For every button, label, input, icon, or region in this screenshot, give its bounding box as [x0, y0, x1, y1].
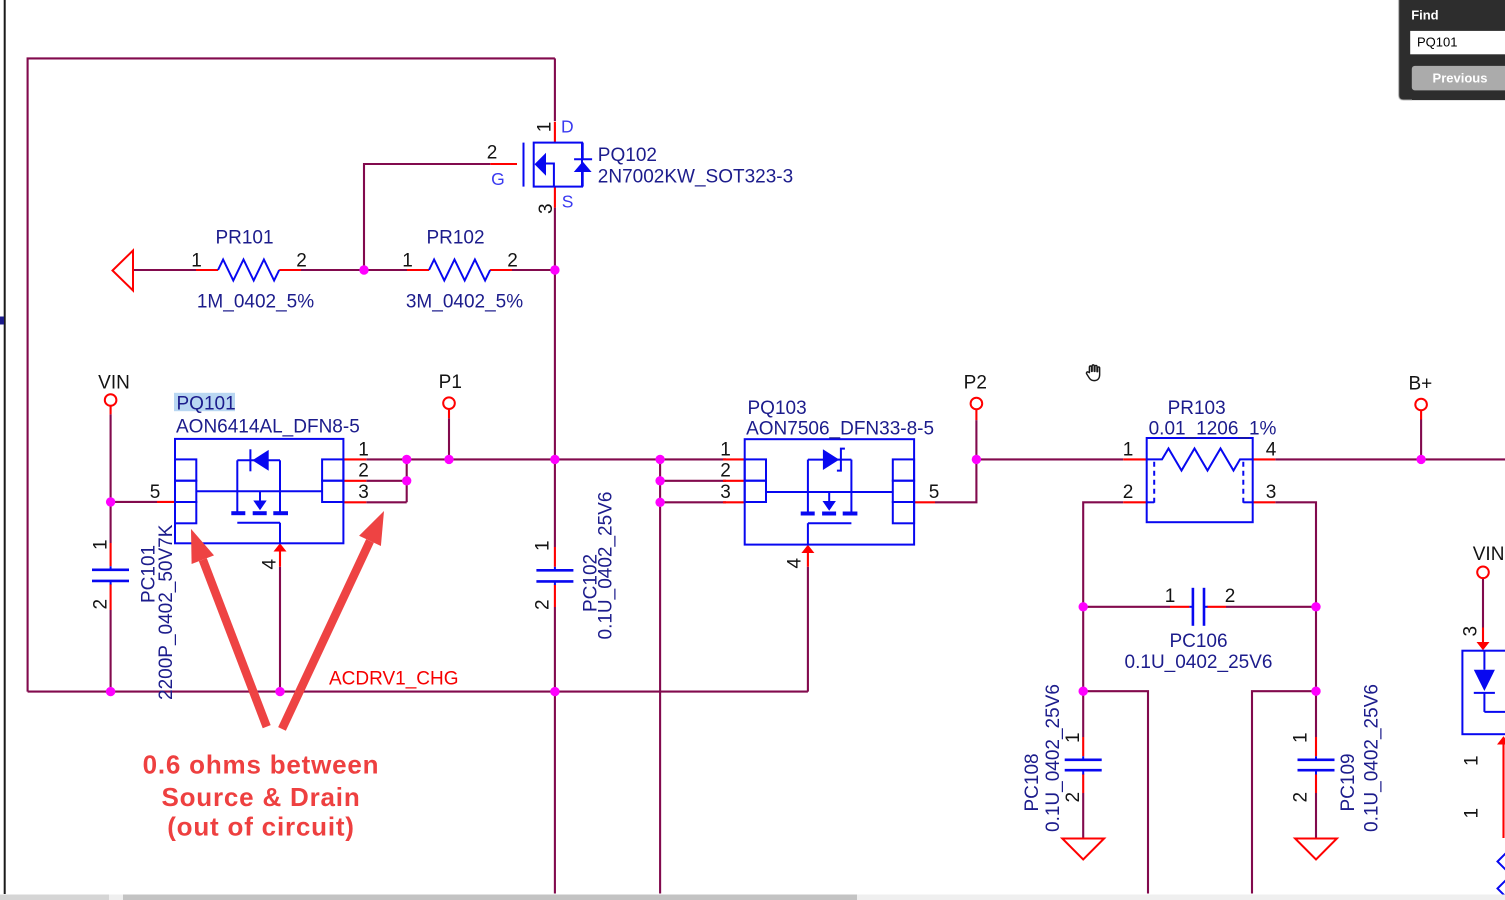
- wire PR103 pin4 to right edge B+: [1275, 458, 1505, 460]
- svg-text:2N7002KW_SOT323-3: 2N7002KW_SOT323-3: [598, 167, 793, 188]
- transistor PQ103: [745, 439, 914, 544]
- port B+: [1415, 399, 1427, 411]
- svg-text:PR102: PR102: [426, 228, 484, 249]
- svg-text:ACDRV1_CHG: ACDRV1_CHG: [329, 669, 459, 690]
- capacitor PC102: [536, 567, 573, 585]
- svg-text:1: 1: [358, 439, 369, 460]
- pin stub PC109 pin2: [1315, 774, 1317, 793]
- svg-text:VIN: VIN: [98, 373, 130, 394]
- junction main at x554: [550, 455, 559, 464]
- svg-text:PC108: PC108: [1022, 753, 1043, 811]
- capacitor PC101: [92, 566, 129, 584]
- svg-text:1: 1: [533, 540, 554, 551]
- svg-text:1: 1: [191, 251, 202, 272]
- pin stub PQ102 gate pin2: [490, 163, 517, 165]
- svg-text:2: 2: [533, 599, 554, 610]
- pin stub PQ101 pin4 with arrow: [274, 543, 287, 566]
- junction VIN pin5 tap: [106, 497, 115, 506]
- bus entry diamond lower right: [1498, 880, 1505, 897]
- svg-text:PC106: PC106: [1169, 631, 1227, 652]
- pin stub right edge with up arrow: [1497, 736, 1505, 838]
- horizontal scrollbar track: [0, 895, 1505, 900]
- svg-text:5: 5: [150, 482, 161, 503]
- pin stub VIN right pin3 with down arrow: [1477, 628, 1490, 651]
- pin stub PR101 pin2: [279, 269, 301, 271]
- wire PR102 to source junction: [490, 269, 555, 271]
- svg-text:0.01_1206_1%: 0.01_1206_1%: [1149, 419, 1277, 440]
- svg-text:1: 1: [1462, 755, 1483, 766]
- pin stub PC101 pin1: [110, 543, 112, 566]
- wire PC109 to ground: [1315, 793, 1317, 839]
- svg-text:Find: Find: [1411, 7, 1438, 22]
- wire P1 drop: [448, 418, 450, 459]
- svg-text:3: 3: [720, 482, 731, 503]
- pin stub PQ103 pin3: [723, 501, 745, 503]
- wire PQ103 pin4 drop: [807, 567, 809, 692]
- port stub VIN left: [110, 407, 112, 415]
- find dialog input field: [1410, 31, 1505, 54]
- find dialog panel: [1399, 0, 1505, 100]
- svg-text:0.1U_0402_25V6: 0.1U_0402_25V6: [596, 492, 617, 640]
- junction x660 pin3 branch: [655, 498, 664, 507]
- svg-text:P1: P1: [439, 372, 462, 393]
- junction x660 pin2 branch: [655, 476, 664, 485]
- port VIN right: [1477, 567, 1489, 579]
- resistor PR103 current sense: [1147, 438, 1253, 522]
- svg-text:PC109: PC109: [1338, 753, 1359, 811]
- pin stub PC101 pin2: [110, 584, 112, 610]
- pin stub PC109 pin1: [1315, 737, 1317, 756]
- annotation arrow right: [282, 511, 384, 729]
- svg-text:0.1U_0402_25V6: 0.1U_0402_25V6: [1043, 684, 1064, 832]
- ground symbol PC108: [1062, 839, 1104, 860]
- port stub P1: [448, 410, 450, 419]
- sheet border line: [4, 0, 6, 894]
- junction B+ node: [1416, 455, 1425, 464]
- svg-text:PR103: PR103: [1168, 398, 1226, 419]
- capacitor PC108: [1065, 756, 1102, 774]
- capacitor PC106: [1189, 588, 1207, 626]
- capacitor PC109: [1298, 756, 1335, 774]
- svg-text:Previous: Previous: [1433, 70, 1488, 85]
- svg-text:Source & Drain: Source & Drain: [161, 782, 360, 812]
- bus entry diamond upper right: [1498, 853, 1505, 870]
- pin stub PR103 pin1: [1123, 458, 1147, 460]
- svg-text:0.6 ohms between: 0.6 ohms between: [143, 750, 380, 780]
- svg-text:2: 2: [1291, 792, 1312, 803]
- svg-text:2200P_0402_50V7K: 2200P_0402_50V7K: [156, 524, 177, 700]
- svg-text:PQ101: PQ101: [177, 394, 236, 415]
- pin stub PR101 pin1: [196, 269, 218, 271]
- wire top-left loop (left vertical and top horizontal): [28, 58, 555, 691]
- pin stub PQ103 pin1: [723, 458, 745, 460]
- svg-text:2: 2: [91, 599, 112, 610]
- svg-text:4: 4: [1266, 439, 1277, 460]
- pin stub PQ102 source pin3: [554, 187, 556, 208]
- pin stub PC108 pin1: [1082, 737, 1084, 756]
- wire PC106 right lead: [1226, 606, 1316, 608]
- pin stub PQ102 drain pin1: [554, 122, 556, 143]
- PQ101 refdes highlight: [174, 393, 235, 411]
- off-page connector arrow: [113, 251, 134, 291]
- svg-text:2: 2: [296, 251, 307, 272]
- wire right branch down x1252: [1252, 691, 1316, 893]
- pin stub PR103 pin3: [1253, 501, 1276, 503]
- transistor PQ101: [175, 439, 343, 543]
- wire PQ101 pin5: [111, 501, 157, 503]
- svg-text:0.1U_0402_25V6: 0.1U_0402_25V6: [1362, 684, 1383, 832]
- junction PC106 right: [1311, 602, 1320, 611]
- svg-text:3: 3: [1266, 482, 1277, 503]
- wire net ACDRV1_CHG bottom horizontal: [28, 691, 808, 693]
- wire main node P1 horizontal: [366, 458, 726, 460]
- wire PQ101 pin4 drop: [279, 567, 281, 692]
- pin stub PQ101 pin5: [157, 501, 175, 503]
- pin stub PQ101 pin2: [343, 480, 366, 482]
- junction PQ101 pins bus upper: [402, 455, 411, 464]
- wire PQ102 gate net to resistor junction: [364, 164, 490, 270]
- junction main at x660: [655, 455, 664, 464]
- pin stub PR102 pin2: [490, 269, 512, 271]
- svg-text:D: D: [561, 117, 574, 137]
- wire PR101 left segment from off-page arrow: [133, 269, 196, 271]
- svg-text:PQ103: PQ103: [748, 398, 807, 419]
- junction VIN at ACDRV1: [106, 687, 115, 696]
- wire PQ103 pin5 up to P2 node: [935, 420, 976, 502]
- svg-text:1: 1: [1462, 808, 1483, 819]
- svg-text:4: 4: [260, 559, 281, 570]
- svg-text:PR101: PR101: [215, 228, 273, 249]
- wire VIN right drop: [1482, 578, 1484, 627]
- wire left branch down x1148: [1083, 691, 1148, 893]
- resistor PR101: [218, 260, 279, 281]
- svg-text:G: G: [491, 169, 505, 189]
- svg-text:2: 2: [1123, 482, 1134, 503]
- resistor PR102: [429, 260, 490, 281]
- svg-text:S: S: [562, 192, 574, 212]
- wire PQ101 pins 1-2-3 tie bus: [366, 459, 406, 502]
- pin stub PC108 pin2: [1082, 774, 1084, 793]
- svg-text:VIN: VIN: [1473, 544, 1505, 565]
- pin stub PC102 pin1: [554, 547, 556, 567]
- pin stub PQ103 pin4 with arrow: [801, 545, 814, 567]
- svg-text:3M_0402_5%: 3M_0402_5%: [406, 292, 523, 313]
- svg-text:2: 2: [487, 143, 498, 164]
- svg-text:1: 1: [402, 251, 413, 272]
- svg-text:1: 1: [1291, 732, 1312, 743]
- junction PR102 to source line: [550, 265, 559, 274]
- hand cursor: [1086, 365, 1099, 381]
- svg-text:1: 1: [1063, 732, 1084, 743]
- wire PQ103 pin2 branch: [660, 480, 726, 482]
- scrollbar thumb: [123, 895, 857, 900]
- junction PQ101 pins bus lower: [402, 476, 411, 485]
- pin stub PR102 pin1: [407, 269, 429, 271]
- svg-text:5: 5: [929, 482, 940, 503]
- svg-text:P2: P2: [964, 373, 987, 394]
- port P2: [971, 398, 983, 410]
- junction P1 node: [444, 455, 453, 464]
- scrollbar left segment: [0, 895, 109, 900]
- pin stub PC102 pin2: [554, 585, 556, 608]
- pin stub PR103 pin2: [1123, 501, 1147, 503]
- junction left branch: [1079, 687, 1088, 696]
- svg-text:1M_0402_5%: 1M_0402_5%: [197, 292, 314, 313]
- port stub P2: [975, 410, 977, 420]
- svg-text:2: 2: [1225, 586, 1236, 607]
- svg-text:0.1U_0402_25V6: 0.1U_0402_25V6: [1125, 652, 1273, 673]
- svg-text:AON7506_DFN33-8-5: AON7506_DFN33-8-5: [746, 418, 934, 439]
- svg-text:4: 4: [785, 558, 806, 569]
- svg-text:1: 1: [535, 122, 556, 133]
- pin stub PQ103 pin2: [723, 480, 745, 482]
- svg-text:2: 2: [507, 251, 518, 272]
- junction PQ101 pin4 at ACDRV1: [275, 687, 284, 696]
- transistor PQ102: [524, 143, 593, 187]
- svg-text:2: 2: [720, 461, 731, 482]
- wire PC108 to ground: [1082, 793, 1084, 839]
- diode component at right edge: [1462, 651, 1505, 735]
- junction right branch: [1311, 687, 1320, 696]
- svg-text:3: 3: [536, 203, 557, 214]
- wire PR103 pin3 sense right vertical: [1275, 502, 1316, 737]
- junction at gate net and resistor chain: [359, 265, 368, 274]
- svg-text:B+: B+: [1409, 374, 1433, 395]
- edge marker tick: [0, 317, 4, 325]
- wire PC106 left lead: [1083, 606, 1170, 608]
- port stub B+: [1420, 411, 1422, 420]
- pin stub PQ103 pin5: [914, 501, 935, 503]
- pin stub PQ101 pin1: [343, 458, 366, 460]
- svg-text:2: 2: [358, 461, 369, 482]
- svg-text:3: 3: [358, 482, 369, 503]
- pin stub PC106 pin2: [1207, 606, 1226, 608]
- pin stub PQ101 pin3: [343, 501, 366, 503]
- pin stub PR103 pin4: [1253, 458, 1276, 460]
- svg-text:(out of circuit): (out of circuit): [167, 812, 355, 842]
- wire PR103 pin2 sense left vertical: [1083, 502, 1123, 737]
- port P1: [443, 397, 455, 409]
- svg-text:AON6414AL_DFN8-5: AON6414AL_DFN8-5: [176, 417, 360, 438]
- junction x554 at ACDRV1: [550, 687, 559, 696]
- wire P2 to PR103 pin1: [976, 458, 1123, 460]
- svg-text:PQ102: PQ102: [598, 145, 657, 166]
- svg-text:1: 1: [720, 439, 731, 460]
- port VIN left: [105, 394, 117, 406]
- wire B+ drop: [1420, 420, 1422, 460]
- wire PQ102 drain drop: [554, 58, 556, 121]
- svg-text:1: 1: [91, 539, 112, 550]
- wire PR101 to PR102 segment: [301, 269, 407, 271]
- svg-text:PQ101: PQ101: [1417, 35, 1457, 50]
- wire VIN vertical: [110, 414, 112, 691]
- svg-text:1: 1: [1123, 439, 1134, 460]
- svg-text:3: 3: [1461, 626, 1482, 637]
- annotation arrow left: [191, 529, 267, 727]
- wire vertical branch x660: [659, 459, 661, 893]
- ground symbol PC109: [1295, 839, 1337, 860]
- junction PC106 left: [1079, 602, 1088, 611]
- pin stub PC106 pin1: [1170, 606, 1189, 608]
- junction P2 node: [972, 455, 981, 464]
- svg-text:2: 2: [1063, 792, 1084, 803]
- wire PQ103 pin3 branch: [660, 501, 726, 503]
- wire PQ102 source vertical down to bottom: [554, 208, 556, 894]
- find dialog Previous button: [1412, 66, 1505, 91]
- svg-text:1: 1: [1165, 586, 1176, 607]
